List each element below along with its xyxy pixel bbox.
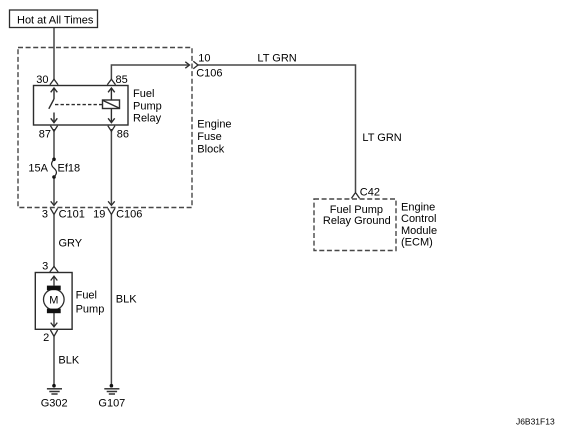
- svg-text:Engine: Engine: [197, 118, 231, 130]
- svg-text:2: 2: [43, 332, 49, 344]
- svg-text:15A: 15A: [28, 163, 48, 175]
- svg-text:30: 30: [36, 74, 48, 86]
- svg-text:J6B31F13: J6B31F13: [516, 417, 555, 427]
- svg-text:C101: C101: [59, 209, 85, 221]
- svg-text:87: 87: [39, 128, 51, 140]
- svg-text:19: 19: [93, 209, 105, 221]
- svg-text:Relay Ground: Relay Ground: [323, 215, 391, 227]
- svg-text:BLK: BLK: [58, 355, 79, 367]
- svg-text:3: 3: [42, 209, 48, 221]
- svg-text:Control: Control: [401, 213, 436, 225]
- svg-text:C42: C42: [360, 186, 380, 198]
- svg-text:Relay: Relay: [133, 113, 162, 125]
- svg-text:C106: C106: [196, 67, 222, 79]
- svg-text:10: 10: [198, 52, 210, 64]
- svg-text:BLK: BLK: [116, 294, 137, 306]
- svg-text:M: M: [49, 295, 58, 307]
- svg-text:GRY: GRY: [59, 237, 83, 249]
- svg-text:Module: Module: [401, 225, 437, 237]
- svg-text:Pump: Pump: [133, 100, 162, 112]
- svg-text:Hot at All Times: Hot at All Times: [17, 15, 94, 27]
- svg-text:C106: C106: [116, 209, 142, 221]
- svg-text:Block: Block: [197, 144, 224, 156]
- svg-text:LT GRN: LT GRN: [362, 132, 401, 144]
- svg-text:Ef18: Ef18: [58, 163, 81, 175]
- svg-text:Pump: Pump: [76, 303, 105, 315]
- svg-text:86: 86: [117, 128, 129, 140]
- svg-text:Fuel: Fuel: [76, 290, 97, 302]
- svg-text:85: 85: [116, 74, 128, 86]
- svg-text:Engine: Engine: [401, 202, 435, 214]
- svg-text:Fuse: Fuse: [197, 131, 221, 143]
- svg-text:G302: G302: [41, 398, 68, 410]
- svg-text:LT GRN: LT GRN: [257, 53, 296, 65]
- svg-text:3: 3: [42, 260, 48, 272]
- svg-text:G107: G107: [98, 398, 125, 410]
- svg-text:(ECM): (ECM): [401, 236, 433, 248]
- svg-text:Fuel: Fuel: [133, 88, 154, 100]
